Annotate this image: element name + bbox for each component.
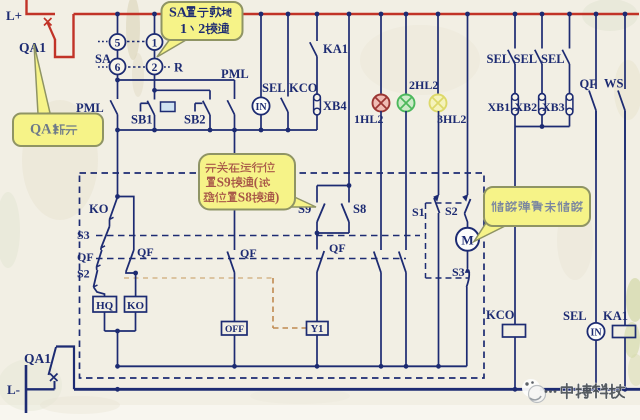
svg-text:SEL: SEL — [541, 52, 565, 66]
mech linkage dashed y258 — [96, 258, 406, 260]
label QA1 (bottom) — [24, 351, 51, 366]
label PML right — [221, 67, 249, 81]
coil KCO — [503, 325, 526, 338]
svg-text:L+: L+ — [6, 8, 22, 23]
label SEL #2 — [514, 52, 538, 66]
label S2 left — [77, 267, 90, 281]
contact QF left — [97, 248, 102, 267]
contact KO (switch) — [110, 197, 118, 220]
svg-text:): ) — [275, 189, 279, 204]
lamp socket XB3 — [566, 94, 573, 116]
coil KA1 — [613, 326, 636, 338]
label KA1 (coil) — [603, 309, 628, 323]
contact SEL #1 — [508, 12, 518, 94]
junctions inner bus — [115, 364, 441, 369]
svg-text:SA: SA — [169, 4, 188, 20]
wire SA6 down to node — [117, 75, 119, 81]
node bus-5 — [115, 12, 120, 17]
wire bus to lamp 1HL2 — [379, 12, 384, 95]
label SB2 — [184, 113, 206, 127]
svg-text:QF: QF — [580, 77, 598, 91]
svg-text:QF: QF — [77, 250, 94, 264]
label WS — [604, 77, 624, 91]
lamp socket XB4 — [314, 94, 321, 115]
lamp socket XB1 — [512, 94, 519, 116]
svg-text:WS: WS — [604, 77, 624, 91]
wire join coils — [105, 330, 136, 332]
svg-text:S8: S8 — [353, 202, 366, 216]
svg-text:2HL2: 2HL2 — [409, 78, 438, 92]
label S8 — [353, 202, 366, 216]
svg-text:SEL: SEL — [563, 309, 587, 323]
svg-text:QA1: QA1 — [24, 351, 51, 366]
label QF left — [77, 250, 94, 264]
svg-text:QF: QF — [240, 246, 257, 260]
svg-text:Y1: Y1 — [311, 324, 324, 335]
svg-text:S2: S2 — [77, 267, 90, 281]
label S1 — [412, 205, 425, 219]
breaker QA1 (open, top) — [44, 14, 74, 57]
node HQKO link L- — [115, 387, 120, 392]
svg-text:S2: S2 — [445, 204, 458, 218]
svg-text:(: ( — [254, 174, 259, 189]
wire inner bus — [118, 365, 467, 367]
svg-text:IN: IN — [255, 102, 267, 113]
label L- — [7, 382, 20, 397]
contact WS — [618, 12, 627, 160]
contact S2 left — [94, 267, 98, 287]
junctions y130 — [115, 128, 290, 133]
lamp 3HL2 (yellow) — [430, 95, 447, 112]
label XB4 — [323, 99, 347, 113]
svg-text:1HL2: 1HL2 — [354, 112, 383, 126]
svg-text:XB2: XB2 — [515, 100, 538, 114]
label QF (top right) — [580, 77, 598, 91]
wire to KO coil — [135, 273, 137, 297]
wire QF right to IN — [595, 111, 597, 323]
label R — [174, 61, 184, 75]
svg-text:R: R — [174, 61, 184, 75]
svg-text:KCO: KCO — [486, 308, 515, 322]
lamp 2HL2 (green) — [398, 95, 415, 112]
svg-text:S8: S8 — [238, 189, 252, 204]
label KCO (top) — [289, 81, 318, 95]
svg-text:SB1: SB1 — [131, 113, 153, 127]
contact KCO — [281, 12, 291, 130]
mech linkage dashed y278 (tan) — [124, 277, 273, 279]
svg-text:L-: L- — [7, 382, 20, 397]
wire bus to SA contact 1 — [154, 14, 156, 34]
label SA — [95, 52, 111, 66]
wire XB row to KCO coil — [514, 127, 516, 325]
label S3 left — [77, 228, 90, 242]
wire Y1 to inner bus — [316, 335, 318, 366]
label XB1 — [488, 100, 511, 114]
svg-text:6: 6 — [115, 62, 121, 74]
watermark 中博科技 — [561, 384, 624, 399]
svg-text:XB3: XB3 — [542, 100, 565, 114]
svg-text:OFF: OFF — [225, 325, 244, 335]
svg-text:KA1: KA1 — [603, 309, 628, 323]
svg-text:KA1: KA1 — [323, 42, 348, 56]
wire KCO coil to L- — [514, 337, 516, 389]
svg-text:KCO: KCO — [289, 81, 318, 95]
svg-text:KO: KO — [127, 300, 145, 312]
node S9S8 top — [347, 183, 352, 188]
wire lamp2 to QF aux2 — [405, 111, 407, 250]
SA dotted right of 2 — [164, 66, 170, 68]
label XB3 — [542, 100, 565, 114]
wire XB4 to y130 — [316, 115, 318, 130]
label QF (Y1 branch) — [329, 241, 346, 255]
wire y130 to QF mid-left — [234, 130, 236, 250]
pushbutton SB2 — [195, 90, 210, 130]
contact QF (top right) — [589, 12, 598, 160]
node KCO L- — [513, 387, 518, 392]
svg-text:SEL: SEL — [514, 52, 538, 66]
mech linkage dashed S1-S2 — [426, 203, 470, 278]
breaker QA1 (open, bottom) — [49, 347, 75, 390]
wire join to inner bus — [117, 331, 119, 366]
node bus-SEL — [259, 12, 264, 17]
label QF (KO branch) — [137, 245, 154, 259]
coil OFF — [222, 322, 248, 336]
wire lamp3 to S1 — [438, 111, 440, 195]
wire y130 down to KO node — [117, 130, 119, 197]
dashed enclosure box — [80, 173, 485, 378]
contact KA1 — [310, 12, 320, 94]
wire L- lead — [26, 388, 55, 390]
wire S9S8 bottom link — [317, 232, 349, 234]
svg-text:HQ: HQ — [96, 300, 114, 312]
wire horizontal y90 — [155, 89, 211, 91]
SA contact 1 — [147, 34, 163, 50]
disconnect S2 — [463, 195, 471, 228]
indicator IN (SEL lower) — [587, 323, 604, 340]
wire bus to lamp 3HL2 — [436, 12, 441, 95]
svg-text:XB1: XB1 — [488, 100, 511, 114]
label S3 right — [452, 265, 465, 279]
svg-text:SB2: SB2 — [184, 113, 206, 127]
lamp 1HL2 (red) — [373, 95, 390, 112]
label KA1 (top) — [323, 42, 348, 56]
SA contact 6 — [110, 59, 126, 75]
wire XB row y126 — [515, 124, 570, 129]
contact QF (KO branch) — [126, 250, 136, 273]
label L+ — [6, 8, 22, 23]
node under 6 — [115, 78, 120, 83]
wire bus down to S9-S8 node — [347, 12, 352, 186]
svg-text:M: M — [461, 233, 473, 248]
label KO (switch) — [89, 202, 109, 216]
SA contact 5 — [110, 34, 126, 50]
wire red bus L+ — [74, 13, 640, 16]
svg-text:QF: QF — [329, 241, 346, 255]
label SB1 — [131, 113, 153, 127]
wire bus L- — [74, 388, 640, 391]
svg-text:1: 1 — [152, 38, 158, 50]
wire 5-6 — [117, 50, 119, 59]
wire XB2 to y126 — [541, 115, 543, 127]
wire IN to L- — [595, 340, 597, 389]
disconnect S3 right — [466, 251, 470, 366]
SA dotted bridge row2 — [98, 66, 145, 68]
wire lamp1 to QF aux1 — [380, 111, 382, 250]
coil KO — [125, 297, 147, 313]
label S2 — [445, 204, 458, 218]
label SEL (lower) — [563, 309, 587, 323]
contact PML left — [110, 80, 117, 130]
watermark logo — [522, 379, 556, 403]
wire L+ red feed — [27, 0, 56, 14]
wire bus to S2 — [465, 12, 470, 195]
wire S9S8 top link — [317, 185, 349, 187]
label SEL #1 — [487, 52, 511, 66]
disconnect S1 — [434, 195, 440, 366]
svg-text:1: 1 — [180, 21, 187, 37]
svg-text:QA1: QA1 — [19, 40, 46, 55]
svg-text:QF: QF — [137, 245, 154, 259]
motor M — [456, 228, 479, 251]
svg-text:S3: S3 — [77, 228, 90, 242]
wire SA2 down to node — [154, 75, 156, 91]
indicator IN (SEL) — [252, 97, 269, 114]
coil Y1 — [307, 322, 329, 336]
svg-text:3HL2: 3HL2 — [437, 112, 466, 126]
callout QA1断开 — [13, 44, 103, 146]
wire bus to SA contact 5 — [117, 14, 119, 34]
svg-text:SEL: SEL — [262, 81, 286, 95]
label 1HL2 — [354, 112, 383, 126]
contact S3 left — [101, 220, 110, 249]
node IN L- — [594, 387, 599, 392]
label SEL #3 — [541, 52, 565, 66]
SA dotted bridge row1 — [98, 41, 145, 43]
wire KO bottom — [135, 312, 137, 331]
wire S2 to HQ — [94, 287, 105, 297]
wire OFF to inner bus — [234, 335, 236, 366]
label KCO (coil) — [486, 308, 515, 322]
node bus-1 — [152, 12, 157, 17]
interlock dashed to Y1 (tan) — [273, 278, 306, 328]
node S9S8 bottom — [315, 231, 320, 236]
label QA1 (top) — [19, 40, 46, 55]
wire XB1 to y126 — [514, 115, 516, 127]
callout SA置于就地 1、2接通 — [157, 2, 243, 57]
wire bus down to SEL indicator — [260, 14, 262, 98]
svg-text:SEL: SEL — [487, 52, 511, 66]
wire WS to KA1 coil — [624, 111, 626, 326]
contact QF (OFF branch) — [227, 252, 234, 322]
contact QF (Y1 branch) — [317, 233, 324, 322]
wire HQ bottom — [104, 312, 106, 331]
wire KA1 coil to L- — [624, 338, 626, 390]
wire 1-2 — [154, 50, 156, 59]
label PML left — [76, 101, 104, 115]
wire horizontal y80 — [118, 79, 235, 81]
label QF (OFF branch) — [240, 246, 257, 260]
wire branch to QF right — [118, 197, 134, 251]
mech linkage dashed y236 — [96, 235, 420, 237]
wire bus to lamp 2HL2 — [404, 12, 409, 95]
wire IN to y130 — [260, 115, 262, 130]
svg-text:S9: S9 — [217, 174, 231, 189]
terminal L- — [25, 365, 28, 413]
svg-text:2: 2 — [152, 62, 158, 74]
contact QF aux1 — [374, 252, 381, 367]
contact SEL #2 — [535, 12, 545, 94]
svg-text:XB4: XB4 — [323, 99, 347, 113]
node KA1 L- — [623, 387, 628, 392]
pushbutton SB1 — [141, 90, 155, 130]
svg-text:2: 2 — [198, 21, 205, 37]
node KO branch — [115, 194, 120, 199]
contact S8 — [341, 186, 349, 234]
svg-text:5: 5 — [115, 38, 121, 50]
contact S9 — [317, 186, 325, 234]
SA contact 2 — [147, 59, 163, 75]
node QF-KO — [133, 271, 138, 276]
node coils join — [115, 329, 120, 334]
label 3HL2 — [437, 112, 466, 126]
callout 开关在运行位置S9接通（试验位置S8接通） — [199, 154, 316, 210]
svg-text:KO: KO — [89, 202, 109, 216]
svg-text:IN: IN — [590, 328, 602, 339]
coil HQ — [93, 297, 117, 313]
lamp socket XB2 — [539, 94, 546, 116]
svg-text:PML: PML — [221, 67, 249, 81]
label S9 — [298, 202, 311, 216]
svg-text:S3: S3 — [452, 265, 465, 279]
label SEL (top) — [262, 81, 286, 95]
label 2HL2 — [409, 78, 438, 92]
contact QF aux2 — [399, 252, 406, 367]
label XB2 — [515, 100, 538, 114]
indicator box (blue) — [161, 102, 176, 112]
wire node row y130 — [118, 129, 318, 131]
contact PML right — [227, 80, 234, 130]
contact SEL #3 — [562, 12, 572, 94]
svg-text:SA: SA — [95, 52, 111, 66]
svg-text:S1: S1 — [412, 205, 425, 219]
wire XB3 to y126 — [569, 115, 571, 127]
callout 储能弹簧未储能 — [474, 187, 590, 242]
node under 2 — [152, 88, 157, 93]
